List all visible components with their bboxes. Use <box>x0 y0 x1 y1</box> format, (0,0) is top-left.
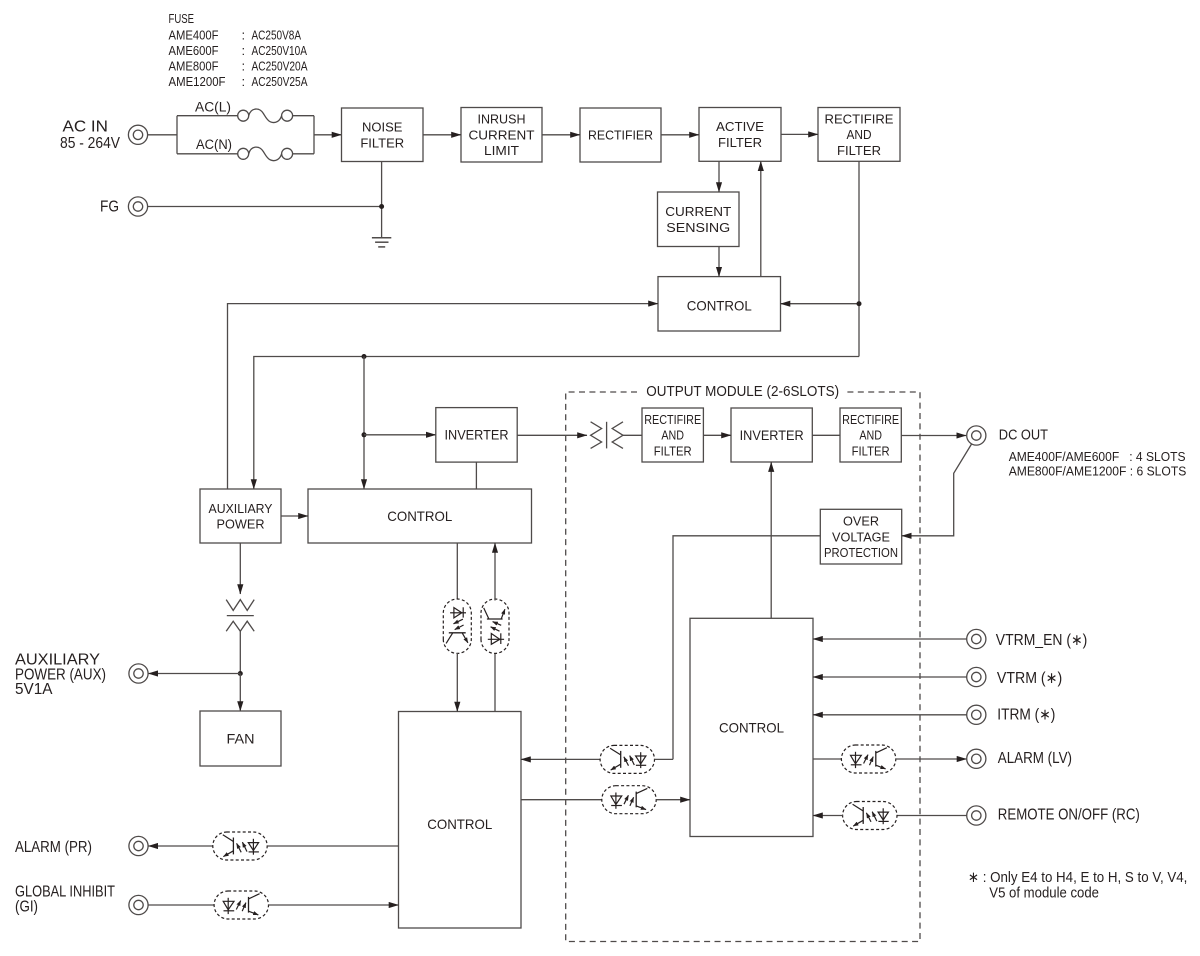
svg-text:FILTER: FILTER <box>654 443 692 458</box>
box INVERTER module <box>731 408 812 462</box>
svg-text:5V1A: 5V1A <box>15 681 53 698</box>
junction bus junction at control feed <box>857 301 862 306</box>
svg-text:(GI): (GI) <box>15 899 38 916</box>
svg-text:CONTROL: CONTROL <box>427 816 492 832</box>
svg-text:RECTIFIRE: RECTIFIRE <box>644 412 701 427</box>
wire INVERTER module to RECTIFIRE module B <box>812 434 840 436</box>
wire bus drop to CONTROL secondary <box>363 357 365 490</box>
node OUTPUT MODULE dashed border <box>566 392 920 942</box>
svg-text:INRUSH: INRUSH <box>478 112 526 127</box>
wire opto PC3 to ALARM PR terminal <box>148 845 213 847</box>
svg-text:AC IN: AC IN <box>63 119 109 136</box>
svg-text:ALARM (PR): ALARM (PR) <box>15 839 92 856</box>
svg-text:AND: AND <box>661 428 684 443</box>
svg-text:CONTROL: CONTROL <box>719 719 784 735</box>
svg-text:AME400F/AME600F : 4 SLOTS: AME400F/AME600F : 4 SLOTS <box>1009 449 1186 464</box>
transformer T2 <box>226 600 254 632</box>
terminal ALARM (PR) <box>129 836 148 855</box>
svg-text:AME600F: AME600F <box>169 43 219 58</box>
box INVERTER primary <box>436 408 517 463</box>
optocoupler PC2 <box>481 599 509 653</box>
wire RECTIFIER to ACTIVE FILTER <box>661 134 699 136</box>
svg-text:FUSE: FUSE <box>169 11 195 26</box>
terminal DC OUT <box>967 426 986 445</box>
wire RC terminal to opto PC8 <box>897 815 967 817</box>
optocoupler PC4 <box>214 891 268 919</box>
wire AUX node to AUX terminal <box>148 673 240 675</box>
wire AUXILIARY POWER to transformer T2 <box>239 543 241 594</box>
svg-text:CURRENT: CURRENT <box>665 204 731 219</box>
optocoupler PC5 <box>600 745 654 773</box>
svg-text::: : <box>242 59 246 74</box>
svg-text:FILTER: FILTER <box>360 135 404 150</box>
wire opto PC4 to CONTROL housekeeping <box>269 904 399 906</box>
box FAN <box>200 711 281 766</box>
svg-text:AUXILIARY: AUXILIARY <box>209 501 273 516</box>
svg-text:AC250V8A: AC250V8A <box>252 28 302 43</box>
wire opto PC7 to ALARM LV terminal <box>896 758 967 760</box>
wire AUX node to FAN <box>239 674 241 712</box>
junction bus junction inverter feed <box>362 354 367 359</box>
wire transformer T2 to AUX node <box>239 631 241 673</box>
wire NOISE FILTER to ground <box>381 162 383 238</box>
box INRUSH CURRENT LIMIT <box>461 108 542 163</box>
svg-text:AC250V25A: AC250V25A <box>252 74 308 89</box>
optocoupler PC3 <box>213 832 267 860</box>
fuse F1 AC(L) <box>177 109 314 123</box>
optocoupler PC8 <box>843 802 897 830</box>
svg-text:AME1200F: AME1200F <box>169 74 226 89</box>
wire AC IN to fuse block <box>148 134 177 136</box>
terminal ITRM <box>967 705 986 724</box>
wire opto PC8 to CONTROL module <box>813 815 843 817</box>
junction FG ground junction <box>379 204 384 209</box>
svg-text:AME800F/AME1200F : 6 SLOTS: AME800F/AME1200F : 6 SLOTS <box>1009 464 1187 479</box>
svg-text:RECTIFIRE: RECTIFIRE <box>825 111 894 126</box>
optocoupler PC6 <box>602 786 656 814</box>
svg-text:AC250V20A: AC250V20A <box>252 59 308 74</box>
svg-text:CONTROL: CONTROL <box>387 508 452 524</box>
svg-text:RECTIFIER: RECTIFIER <box>588 128 653 143</box>
svg-text:VTRM (∗): VTRM (∗) <box>997 670 1062 687</box>
wire GI terminal to opto PC4 <box>148 904 214 906</box>
node fuse bracket <box>177 116 314 154</box>
svg-text:FILTER: FILTER <box>837 143 881 158</box>
svg-text:INVERTER: INVERTER <box>445 428 509 443</box>
svg-text:V5 of module code: V5 of module code <box>989 884 1099 901</box>
wire bus to CONTROL primary right <box>781 303 860 305</box>
terminal ALARM (LV) <box>967 749 986 768</box>
wire bus into opto PC5 <box>655 758 674 760</box>
svg-text:AC(L): AC(L) <box>195 100 231 115</box>
terminal REMOTE ON/OFF (RC) <box>967 806 986 825</box>
svg-text:ACTIVE: ACTIVE <box>716 119 764 134</box>
svg-text:INVERTER: INVERTER <box>740 428 804 443</box>
svg-text:REMOTE ON/OFF (RC): REMOTE ON/OFF (RC) <box>998 807 1140 824</box>
wire CONTROL module to INVERTER module <box>770 462 772 618</box>
wire RECTIFIRE module A to INVERTER module <box>703 434 731 436</box>
box NOISE FILTER <box>342 108 424 162</box>
svg-text:OVER: OVER <box>843 514 879 529</box>
wire INRUSH CURRENT LIMIT to RECTIFIER <box>542 134 580 136</box>
svg-text:AND: AND <box>859 428 882 443</box>
wire main bus to auxiliary power <box>254 357 859 490</box>
wire RECTIFIRE module B to DC OUT <box>901 435 966 437</box>
box RECTIFIRE AND FILTER module A <box>642 408 703 462</box>
svg-text:AND: AND <box>847 127 872 142</box>
box CONTROL secondary <box>308 489 532 543</box>
svg-text:AME400F: AME400F <box>169 28 219 43</box>
box CONTROL primary <box>658 277 781 331</box>
svg-text:OUTPUT MODULE (2-6SLOTS): OUTPUT MODULE (2-6SLOTS) <box>646 384 839 400</box>
svg-text:POWER: POWER <box>217 517 265 532</box>
svg-text:LIMIT: LIMIT <box>484 143 519 158</box>
terminal FG <box>128 197 147 216</box>
ground symbol <box>372 238 391 247</box>
wire ACTIVE FILTER to RECTIFIRE AND FILTER <box>781 133 818 135</box>
wire opto PC2 to CONTROL secondary <box>494 543 496 601</box>
svg-text:ITRM (∗): ITRM (∗) <box>997 706 1055 723</box>
terminal AUXILIARY POWER (AUX) <box>129 664 148 683</box>
svg-text::: : <box>242 74 246 89</box>
svg-text:AC250V10A: AC250V10A <box>252 43 308 58</box>
svg-text:FAN: FAN <box>227 731 255 746</box>
wire CONTROL housekeeping to opto PC3 <box>267 845 398 847</box>
svg-text:NOISE: NOISE <box>362 120 403 135</box>
svg-text:ALARM (LV): ALARM (LV) <box>998 750 1072 767</box>
wire INVERTER to CONTROL secondary <box>475 462 477 489</box>
box RECTIFIER <box>580 108 661 162</box>
wire opto PC5 to CONTROL housekeeping <box>521 758 600 760</box>
wire ITRM to CONTROL module <box>813 714 967 716</box>
wire CONTROL secondary to opto PC1 <box>456 543 458 599</box>
svg-text:AC(N): AC(N) <box>196 137 232 152</box>
svg-text:CONTROL: CONTROL <box>687 297 752 313</box>
wire FG to ground node <box>148 206 382 208</box>
svg-text::: : <box>242 28 246 43</box>
svg-text:DC OUT: DC OUT <box>999 428 1048 444</box>
junction AUX branch junction <box>238 671 243 676</box>
svg-text:SENSING: SENSING <box>666 220 730 235</box>
terminal AC IN <box>128 125 147 144</box>
svg-text:FG: FG <box>100 199 119 216</box>
terminal VTRM_EN <box>967 629 986 648</box>
wire CONTROL housekeeping to opto PC2 <box>494 652 496 711</box>
wire CONTROL module to opto PC7 <box>813 758 841 760</box>
box RECTIFIRE AND FILTER input <box>818 108 900 162</box>
wire DC OUT to OVER VOLTAGE PROTECTION <box>902 444 972 536</box>
box AUXILIARY POWER <box>200 489 281 543</box>
svg-text:PROTECTION: PROTECTION <box>824 545 898 560</box>
svg-text:CURRENT: CURRENT <box>469 127 535 142</box>
wire NOISE FILTER to INRUSH CURRENT LIMIT <box>423 134 461 136</box>
wire VTRM to CONTROL module <box>813 676 967 678</box>
box CURRENT SENSING <box>658 192 740 247</box>
svg-text:RECTIFIRE: RECTIFIRE <box>842 412 899 427</box>
svg-text::: : <box>242 43 246 58</box>
wire transformer to RECTIFIRE AND FILTER module <box>623 434 642 436</box>
box OVER VOLTAGE PROTECTION <box>820 509 901 564</box>
box ACTIVE FILTER <box>699 108 781 162</box>
wire INVERTER to transformer <box>517 434 587 436</box>
fuse F2 AC(N) <box>177 147 314 161</box>
wire CONTROL primary left to AUXILIARY POWER <box>228 304 659 489</box>
wire ACTIVE FILTER to CURRENT SENSING <box>718 161 720 192</box>
terminal VTRM <box>967 667 986 686</box>
junction inverter branch junction <box>362 432 367 437</box>
box CONTROL module <box>690 618 813 836</box>
svg-text:85 - 264V: 85 - 264V <box>60 135 121 152</box>
wire VTRM_EN to CONTROL module <box>813 638 967 640</box>
wire RECTIFIRE AND FILTER down bus <box>858 161 860 356</box>
box CONTROL housekeeping <box>399 712 522 929</box>
wire fuse block to NOISE FILTER <box>314 134 342 136</box>
svg-text:VOLTAGE: VOLTAGE <box>832 529 890 544</box>
svg-text:FILTER: FILTER <box>852 443 890 458</box>
wire CURRENT SENSING to CONTROL primary <box>718 247 720 277</box>
optocoupler PC7 <box>841 745 895 773</box>
wire opto PC1 to CONTROL housekeeping <box>456 653 458 712</box>
svg-text:FILTER: FILTER <box>718 135 762 150</box>
terminal GLOBAL INHIBIT (GI) <box>129 895 148 914</box>
wire CONTROL primary to ACTIVE FILTER <box>760 161 762 276</box>
optocoupler PC1 <box>443 599 471 653</box>
svg-text:VTRM_EN (∗): VTRM_EN (∗) <box>996 632 1088 649</box>
wire AUXILIARY POWER to CONTROL secondary <box>281 515 308 517</box>
wire branch to INVERTER <box>364 434 436 436</box>
wire opto PC6 to CONTROL module <box>656 799 690 801</box>
transformer T1 <box>591 422 623 449</box>
wire OVP to module control bus <box>673 536 820 760</box>
svg-text:AME800F: AME800F <box>169 59 219 74</box>
wire CONTROL housekeeping to opto PC6 <box>521 799 602 801</box>
box RECTIFIRE AND FILTER module B <box>840 408 901 462</box>
